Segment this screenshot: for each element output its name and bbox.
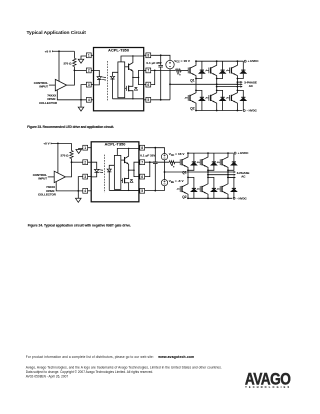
diode freewheel top leg 1 [201, 61, 203, 70]
transistor Q5 output pull-up NPN [121, 159, 125, 161]
diode freewheel bottom leg 1 [196, 90, 202, 97]
transistor top IGBT leg 3 [229, 68, 231, 74]
pin 5 [140, 188, 145, 193]
wire VCC supply minus down [169, 69, 171, 85]
LED D1 internal emitter [94, 70, 100, 76]
wire resistor to pin 2 [74, 69, 86, 71]
svg-text:ACPL-T350: ACPL-T350 [105, 143, 126, 147]
diode freewheel top leg 1 [193, 153, 195, 162]
svg-text:3: 3 [84, 175, 86, 179]
node output junction [128, 169, 130, 171]
pin 3 [86, 82, 91, 87]
transistor bottom IGBT leg 1 Q2 [187, 95, 189, 101]
wire leg 1 phase vertical [195, 79, 197, 91]
pin 1 [86, 53, 91, 58]
wire leg 3 phase vertical [236, 79, 238, 91]
light arrows LED to detector [99, 169, 103, 172]
transistor Q6 output pull-down DMOS [125, 87, 127, 89]
wire buffer output to anode node [67, 70, 75, 85]
pin 3 [83, 174, 88, 179]
transistor bottom IGBT leg 1 Q2 [179, 186, 181, 192]
diode D3 body diode of DMOS [134, 88, 137, 91]
wire pin 6 stub [139, 176, 142, 178]
svg-text:8: 8 [141, 146, 143, 150]
svg-text:5: 5 [147, 98, 149, 102]
resistor R1 270 ohm LED current limit [71, 143, 73, 150]
wire buffer output to anode node [65, 162, 71, 177]
svg-text:6: 6 [147, 83, 149, 87]
wire pin 7 output [151, 69, 176, 71]
pin 1 [83, 145, 88, 150]
op-amp U2 ACPL-T350 gate drive optocoupler body [94, 48, 144, 111]
svg-text:4: 4 [84, 189, 86, 193]
wire buffer ground to pin 4 rail [56, 182, 83, 191]
svg-text:2: 2 [88, 69, 90, 73]
phase output arrowheads [234, 171, 236, 173]
wire VEE to Q1 emitter phase node [165, 171, 189, 173]
wire control input [48, 176, 54, 178]
pin 7 [146, 68, 151, 73]
diode freewheel top leg 3 [242, 61, 244, 70]
transistor bottom IGBT leg 2 [199, 186, 201, 192]
wire pin 8 to VCC supply [145, 148, 165, 154]
svg-text:2: 2 [84, 160, 86, 164]
svg-text:INPUT: INPUT [38, 176, 47, 180]
wire pin 7 output [145, 161, 170, 163]
transistor bottom IGBT leg 2 [208, 95, 210, 101]
node cap top junction [160, 54, 162, 56]
photodiode D2 detector [113, 72, 118, 76]
svg-text:5: 5 [141, 189, 143, 193]
wire phase line A [196, 83, 240, 85]
amplifier block A1 [118, 62, 125, 98]
diode freewheel bottom leg 3 [228, 177, 234, 188]
wire +5V down to 74XXX buffer [57, 143, 59, 173]
wire +HVDC top rail [188, 152, 233, 154]
svg-text:6: 6 [141, 175, 143, 179]
svg-text:Typical Application Circuit: Typical Application Circuit [27, 30, 87, 36]
wire phase line B [217, 86, 241, 88]
ground symbol at pin 1 [78, 59, 84, 63]
svg-text:Data subject to change. Copyr: Data subject to change. Copyright © 2007… [26, 370, 154, 374]
svg-text:COLLECTOR: COLLECTOR [39, 101, 58, 105]
wire strap pin 7 to pin 6 [151, 70, 155, 84]
wire pin 8 to VCC supply [151, 55, 170, 60]
svg-text:+5 V: +5 V [45, 49, 51, 53]
svg-text:Figure 24. Typical application: Figure 24. Typical application circuit w… [28, 223, 131, 227]
svg-text:Figure 23. Recommended LED dri: Figure 23. Recommended LED drive and app… [27, 125, 114, 129]
pin 6 [146, 82, 151, 87]
svg-text:- HVDC: - HVDC [247, 109, 258, 113]
node ground junction [80, 99, 82, 101]
svg-text:4: 4 [88, 98, 90, 102]
pin 5 [146, 97, 151, 102]
svg-text:7: 7 [147, 69, 149, 73]
node VEE to emitter junction [169, 83, 171, 85]
wire internal VEE rail [113, 98, 144, 100]
pin 2 [86, 68, 91, 73]
svg-text:- HVDC: - HVDC [237, 196, 248, 200]
transistor bottom IGBT leg 3 [219, 186, 221, 192]
buffer U1 74XXX open collector gate [54, 171, 65, 182]
svg-text:+ HVDC: + HVDC [238, 151, 250, 155]
wire +5V down to 74XXX buffer [58, 51, 60, 81]
wire VEE to Q1 emitter phase node [170, 83, 196, 85]
wire control input [49, 84, 55, 86]
wire phase line A [188, 171, 234, 173]
node junction +5V to buffer pull-up [58, 50, 60, 52]
node ground junction [77, 190, 79, 192]
supply V1 VCC [166, 60, 174, 68]
op-amp U2 ACPL-T350 gate drive optocoupler body [91, 142, 139, 202]
node junction +5V to buffer pull-up [57, 143, 59, 145]
resistor R1 270 ohm LED current limit [73, 51, 75, 58]
wire +5V rail [51, 142, 72, 144]
svg-text:www.avagotech.com: www.avagotech.com [157, 355, 194, 359]
svg-text:Q2: Q2 [190, 107, 195, 111]
svg-text:TECHNOLOGIES: TECHNOLOGIES [245, 386, 291, 389]
wire pin 1 stub [85, 147, 91, 149]
pin 2 [83, 160, 88, 165]
wire phase line B [208, 174, 234, 176]
svg-text:270 Ω: 270 Ω [63, 61, 72, 65]
wire pin 1 stub [89, 54, 94, 56]
transistor top IGBT leg 1 Q1 [179, 159, 181, 165]
svg-text:COLLECTOR: COLLECTOR [38, 193, 57, 197]
wire pin 3 stub [85, 176, 91, 178]
transistor Q5 output pull-up NPN [125, 66, 129, 68]
svg-text:INPUT: INPUT [39, 85, 48, 89]
wire leg 2 phase vertical [216, 79, 218, 91]
pin 6 [140, 174, 145, 179]
transistor top IGBT leg 2 [199, 159, 201, 165]
ground symbol below pin 4 rail [77, 191, 79, 198]
svg-text:AV02-0508EN - April 26, 2007: AV02-0508EN - April 26, 2007 [26, 375, 69, 379]
supply V2 VEE negative bias [164, 172, 166, 180]
Avago logo wordmark [245, 370, 291, 389]
diode freewheel bottom leg 1 [188, 177, 194, 188]
wire +5V rail [52, 50, 74, 52]
phase output arrowheads [240, 83, 242, 85]
wire internal VEE rail [109, 189, 139, 191]
transistor top IGBT leg 2 [208, 68, 210, 74]
wire pin 7 stub [144, 69, 149, 71]
wire -HVDC bottom rail [196, 110, 242, 112]
node cap top junction [154, 147, 156, 149]
resistor Rg gate resistor [169, 161, 175, 164]
svg-text:For product information and a: For product information and a complete l… [26, 355, 154, 359]
svg-text:0.1 μF 35V: 0.1 μF 35V [146, 61, 161, 65]
capacitor C1 0.1uF bypass [160, 55, 162, 65]
wire VEE rail to pin 5 [145, 190, 165, 192]
svg-text:ACPL-T350: ACPL-T350 [108, 48, 129, 52]
svg-text:Q2: Q2 [182, 195, 187, 199]
light arrows LED to detector [102, 76, 106, 79]
svg-text:Avago, Avago Technologies, and: Avago, Avago Technologies, and the A log… [26, 365, 222, 369]
wire VEE rail to pin 5 [151, 99, 170, 101]
node anode junction (pin 2) [71, 161, 73, 163]
diode freewheel top leg 3 [233, 153, 235, 162]
svg-text:Q1: Q1 [182, 170, 187, 174]
diode freewheel bottom leg 3 [237, 90, 243, 97]
wire Rg to IGBT Q1 gate [181, 69, 188, 71]
wire Rg to IGBT Q1 gate [175, 161, 180, 163]
wire pin 7 stub [139, 161, 142, 163]
ground symbol below pin 4 rail [80, 100, 82, 107]
wire resistor to pin 2 [72, 161, 83, 163]
pin 8 [140, 145, 145, 150]
wire output bracket to pins 6 and 7 [139, 70, 144, 84]
wire +HVDC top rail [196, 60, 243, 62]
pin 8 [146, 53, 151, 58]
pin 4 [86, 97, 91, 102]
svg-text:270 Ω: 270 Ω [61, 153, 70, 157]
isolation barrier dashed line [106, 61, 108, 101]
wire pin 3 to ground rail [78, 177, 83, 191]
wire leg 3 phase vertical [227, 170, 229, 177]
wire pin 5 stub [139, 190, 142, 192]
node pin7 strap junction [154, 70, 156, 72]
diode D3 body diode of DMOS [130, 180, 133, 182]
resistor Rg gate resistor [176, 69, 182, 72]
amplifier block A1 [114, 155, 120, 189]
wire pin 1 no-connect [79, 148, 83, 149]
wire buffer ground to pin 4 rail [57, 90, 86, 100]
transistor top IGBT leg 1 Q1 [187, 68, 189, 74]
svg-text:1: 1 [88, 54, 90, 58]
wire internal VCC rail [117, 148, 139, 155]
wire pin 2 stub [89, 69, 94, 71]
supply V1 VCC [161, 154, 167, 160]
pin 7 [140, 160, 145, 165]
svg-text:0.1 μF 35V: 0.1 μF 35V [140, 154, 155, 158]
wire -HVDC bottom rail [188, 197, 232, 199]
svg-text:1: 1 [84, 146, 86, 150]
transistor Q6 output pull-down DMOS [121, 179, 123, 181]
wire leg 1 phase vertical [187, 170, 189, 177]
node VEE to emitter junction [164, 171, 166, 173]
ground symbol at pin 1 [76, 150, 82, 154]
diode freewheel bottom leg 2 [208, 177, 214, 188]
wire pin 1 no-connect [81, 56, 86, 59]
wire pin 8 stub [139, 147, 142, 149]
isolation barrier dashed line [103, 155, 105, 193]
diode freewheel bottom leg 2 [217, 90, 223, 97]
pin 4 [83, 188, 88, 193]
transistor top IGBT leg 3 [219, 159, 221, 165]
wire phase line C stub [228, 176, 234, 178]
wire pin 5 stub [144, 99, 149, 101]
svg-text:8: 8 [147, 54, 149, 58]
capacitor C1 0.1uF bypass [154, 148, 156, 162]
wire strap pin 7 to pin 6 [145, 162, 150, 176]
node anode junction (pin 2) [74, 70, 76, 72]
wire internal VCC rail [121, 56, 144, 62]
wire pin 4 stub [89, 99, 94, 101]
wire pin 6 stub [144, 84, 149, 86]
wire pin 4 stub [85, 190, 91, 192]
wire pin 8 stub [144, 54, 149, 56]
node output junction [132, 77, 134, 79]
node pin7 strap junction [149, 161, 151, 163]
LED D1 internal emitter [91, 162, 97, 169]
wire pin 3 to ground rail [81, 85, 86, 100]
wire VCC supply minus down [164, 160, 166, 172]
svg-text:7: 7 [141, 160, 143, 164]
svg-text:+5 V: +5 V [43, 142, 49, 146]
wire leg 2 phase vertical [207, 170, 209, 177]
wire pin 2 stub [85, 161, 91, 163]
wire output bracket to pins 6 and 7 [134, 162, 139, 176]
svg-text:Q1: Q1 [190, 79, 195, 83]
wire pin 3 stub [89, 84, 94, 86]
svg-text:3: 3 [88, 83, 90, 87]
wire phase line C stub [237, 81, 240, 83]
buffer U1 74XXX open collector gate [55, 79, 66, 90]
transistor bottom IGBT leg 3 [229, 95, 231, 101]
diode freewheel top leg 2 [213, 153, 215, 162]
photodiode D2 detector [109, 165, 114, 169]
svg-text:+ HVDC: + HVDC [248, 59, 260, 63]
diode freewheel top leg 2 [222, 61, 224, 70]
